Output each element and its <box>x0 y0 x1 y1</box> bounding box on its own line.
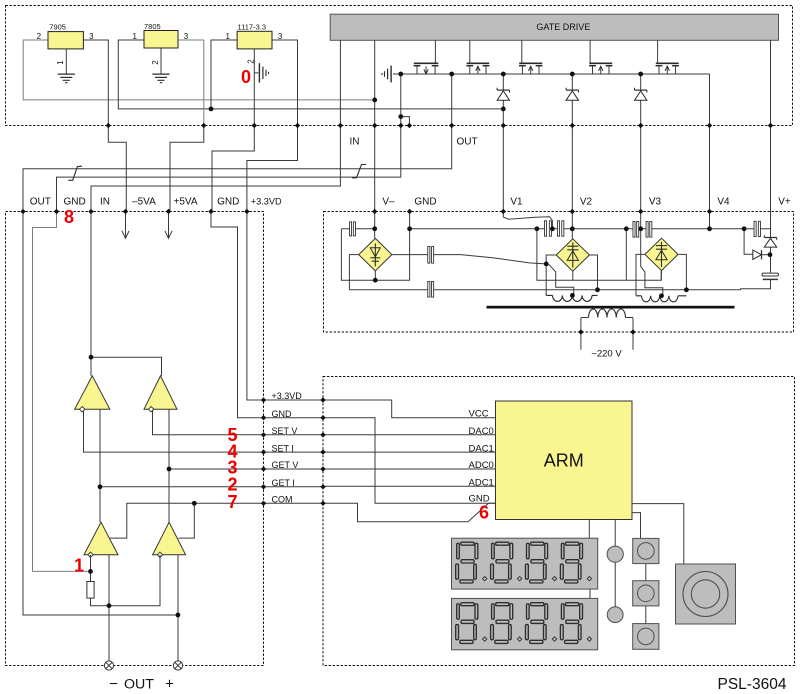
svg-text:+: + <box>165 676 174 693</box>
transistor Q2 <box>469 40 471 63</box>
transistor Q5 <box>657 40 659 63</box>
wire V1 column upper <box>502 74 504 212</box>
wire V4 junction branch down <box>744 229 752 255</box>
node diamonds right box left edge <box>320 397 325 402</box>
wire COM row to GND pin <box>323 503 496 522</box>
svg-text:DAC0: DAC0 <box>469 426 494 437</box>
svg-text:GND: GND <box>63 196 85 207</box>
node diamonds left box top <box>20 209 25 214</box>
svg-text:+3.3VD: +3.3VD <box>251 196 282 206</box>
transformer T1 primary <box>546 294 597 296</box>
node diamonds left box right edge <box>261 397 266 402</box>
wire A4 output to plus terminal <box>177 555 179 661</box>
jumper mark left rails <box>68 166 82 180</box>
diode D4 horizontal <box>753 250 762 259</box>
wire T2 center tap dot <box>659 293 664 298</box>
svg-text:OUT: OUT <box>456 137 477 148</box>
regulator U2 7805 <box>144 31 178 49</box>
wire mosfet source rail <box>393 73 710 75</box>
capacitor C8 on V4 branch <box>754 221 756 236</box>
wire display1 to display2 <box>589 589 591 598</box>
wire bridge bottoms rail <box>537 229 661 280</box>
output terminal minus <box>104 661 113 670</box>
wire VCC row <box>323 400 496 418</box>
wire +3.3VD terminal to +3.3VD row <box>247 212 264 401</box>
wire ARM to button1 <box>632 513 641 539</box>
svg-text:0: 0 <box>241 67 251 87</box>
svg-text:V–: V– <box>382 196 395 207</box>
wire AC rail from GND column <box>410 228 771 230</box>
jumper mark right rails <box>352 165 366 178</box>
wire B2 left vertex loop <box>546 255 556 295</box>
wire GND row to GND pin <box>323 418 496 504</box>
svg-text:1117-3.3: 1117-3.3 <box>238 22 267 31</box>
wire A1 output column to A3 apex <box>99 409 101 522</box>
svg-text:2: 2 <box>37 32 42 41</box>
capacitor C5 <box>557 221 559 236</box>
svg-text:V2: V2 <box>580 196 593 207</box>
wire mains lead left <box>580 318 582 350</box>
ground symbol U2 <box>152 73 169 75</box>
op-amp A2 <box>144 376 177 409</box>
ground symbol U1 <box>58 73 75 75</box>
svg-text:PSL-3604: PSL-3604 <box>718 676 787 693</box>
svg-text:IN: IN <box>350 137 360 148</box>
svg-text:GET I: GET I <box>272 478 295 488</box>
right dashed enclosure (digital board) <box>323 377 795 666</box>
wire T1 center tap dot <box>570 293 575 298</box>
diode D5 on V+ column <box>764 237 776 239</box>
wire ARM to led1 <box>614 520 616 547</box>
wire U1 ground pin <box>65 49 67 74</box>
output terminal plus <box>173 661 182 670</box>
svg-text:GET V: GET V <box>272 460 299 470</box>
wire led1 to led2 <box>614 562 616 607</box>
transistor Q4 <box>589 40 591 63</box>
magnetic core bar <box>487 306 735 309</box>
svg-text:1: 1 <box>133 32 138 41</box>
led L2 <box>607 607 623 623</box>
wire signal rows crossing boxes <box>264 399 324 401</box>
svg-text:GATE DRIVE: GATE DRIVE <box>536 22 590 32</box>
chassis ground symbol gate drive <box>390 66 392 83</box>
wire B1 bottom stub <box>374 271 376 280</box>
svg-text:OUT: OUT <box>30 196 51 207</box>
wire B3 right vertex to rail <box>679 254 687 289</box>
svg-text:V4: V4 <box>717 196 730 207</box>
wire B2 bottom stub <box>572 271 574 280</box>
svg-text:GND: GND <box>414 196 436 207</box>
wire V2 column <box>571 74 573 239</box>
wire -5VA drop from 7905 <box>108 126 126 212</box>
wire V+ column from gate drive <box>770 40 772 237</box>
svg-text:ADC1: ADC1 <box>469 478 494 489</box>
svg-text:7805: 7805 <box>144 22 161 31</box>
svg-text:SET I: SET I <box>272 443 294 453</box>
left dashed enclosure (analog board) <box>6 212 264 666</box>
svg-text:IN: IN <box>100 196 110 207</box>
wire DAC1 row <box>323 451 496 453</box>
svg-text:VCC: VCC <box>469 409 489 420</box>
svg-text:–5VA: –5VA <box>132 196 156 207</box>
capacitor C6 <box>633 222 635 238</box>
wire V3 rail to bottoms rail <box>625 229 627 280</box>
wire V1 wavy joint <box>503 212 552 229</box>
capacitor C4 <box>544 221 546 236</box>
transistor Q3 <box>521 40 523 63</box>
wire D4 to V+ column <box>762 254 771 256</box>
svg-text:2: 2 <box>151 60 160 65</box>
wire gate drive pin to IN rail <box>91 40 340 357</box>
capacitor C1 <box>349 222 351 236</box>
op-amp A3 <box>84 522 118 555</box>
wire ARM to encoder <box>632 504 684 564</box>
bridge rectifier B2 <box>556 239 589 271</box>
wire U2 ground pin <box>160 48 162 74</box>
capacitor C9 electrolytic <box>762 273 779 276</box>
wire A2 output column to A4 apex <box>168 409 170 522</box>
wire SET V row <box>153 409 264 435</box>
wire drop jog to GND column <box>401 117 410 126</box>
button S2 <box>633 581 659 606</box>
wire B1 left vertex loop <box>349 255 358 290</box>
wire IN node to op-amp A1 apex <box>90 357 92 376</box>
svg-text:1: 1 <box>56 60 65 65</box>
display DS1 <box>452 538 598 589</box>
svg-text:3: 3 <box>184 32 189 41</box>
wire button2 to button3 <box>645 606 647 624</box>
button S1 <box>633 538 659 563</box>
wire OUT column and long left OUT line <box>23 74 452 615</box>
wire V4 column <box>709 74 711 229</box>
wire GND terminal down jog <box>33 212 91 572</box>
wire U3 ground pin to node 0 <box>253 49 255 126</box>
display DS2 <box>452 598 598 649</box>
wire ADC0 row <box>323 468 496 470</box>
wire COM row with branches <box>178 503 263 538</box>
transformer T2 primary <box>636 295 686 297</box>
wire button1 to button2 <box>645 564 647 581</box>
wire B3 left vertex loop <box>636 254 644 295</box>
node diamonds middle box bottom <box>578 329 583 334</box>
svg-text:COM: COM <box>272 495 293 505</box>
encoder <box>676 564 736 624</box>
wire A3 input through resistor R1 <box>91 555 161 606</box>
led L1 <box>607 546 623 562</box>
svg-text:V3: V3 <box>649 196 662 207</box>
op-amp A1 <box>75 376 110 409</box>
svg-text:7: 7 <box>228 492 238 512</box>
wire +5VA arrow stub <box>165 212 172 239</box>
wire GND2 terminal to GND row <box>211 212 264 418</box>
button S3 <box>633 624 659 650</box>
wire V+ column mid <box>770 247 772 273</box>
svg-text:8: 8 <box>64 207 74 227</box>
node diamonds middle box top <box>372 209 377 214</box>
transistor Q1 <box>434 40 436 63</box>
regulator U3 1117-3.3 <box>237 31 272 49</box>
wire A3 output to minus terminal <box>108 555 110 661</box>
svg-text:GND: GND <box>272 409 293 419</box>
svg-text:−: − <box>109 676 118 693</box>
wire ADC1 row <box>323 485 496 487</box>
wire B1 right vertex to C2 <box>392 254 428 256</box>
wire 7805 input loop rail <box>118 40 503 109</box>
wire ARM to display1 <box>588 520 590 539</box>
svg-text:V1: V1 <box>510 196 523 207</box>
wire B3 bottom stub <box>660 271 662 281</box>
regulator U1 7905 <box>48 32 83 49</box>
wire 7905 input loop to V- node <box>23 40 375 100</box>
middle dashed enclosure (power conversion) <box>324 212 794 333</box>
bridge rectifier B1 <box>359 238 392 270</box>
wire 7905 output <box>83 40 108 126</box>
svg-text:+3.3VD: +3.3VD <box>272 391 303 401</box>
chassis ground symbol U3 <box>258 63 260 82</box>
svg-text:1: 1 <box>226 32 231 41</box>
capacitor C3 <box>428 282 430 298</box>
svg-text:V+: V+ <box>778 196 791 207</box>
wire C2 wavy to transformer tap <box>434 255 547 264</box>
svg-text:ADC0: ADC0 <box>469 460 494 471</box>
wire B2 right vertex to rail <box>590 255 598 290</box>
wire V+ column bottom jog <box>741 280 771 290</box>
microcontroller ARM <box>496 401 633 520</box>
resistor R1 <box>87 582 94 599</box>
op-amp A4 <box>153 522 186 555</box>
junction dots <box>372 98 377 103</box>
wire C1 return loop <box>341 212 409 281</box>
node diamonds top dashed line <box>106 123 111 128</box>
wire V- column lower with cap branch <box>341 228 374 230</box>
wire 1117 output <box>272 40 298 126</box>
svg-text:6: 6 <box>479 503 489 523</box>
wire V3 column to T2 center tap <box>641 212 663 296</box>
gate drive block <box>330 14 778 40</box>
wire mains lead right <box>632 318 634 350</box>
wire source rail to GND rail drop <box>57 74 401 212</box>
wire GND drop from 1117 ground <box>212 126 254 212</box>
svg-text:OUT: OUT <box>124 677 154 693</box>
wire gate drive pin to V- column <box>374 40 376 238</box>
wire +3.3VD drop from 1117 output <box>247 126 298 212</box>
svg-text:~220 V: ~220 V <box>591 349 622 360</box>
svg-text:1: 1 <box>74 555 84 575</box>
svg-text:GND: GND <box>217 196 239 207</box>
bridge rectifier B3 <box>645 238 678 270</box>
svg-text:DAC1: DAC1 <box>469 444 494 455</box>
wire stub to chassis ground U3 <box>254 72 258 74</box>
svg-text:+5VA: +5VA <box>174 196 198 207</box>
wire main lower rail <box>349 289 740 291</box>
wire DAC0 row <box>323 434 496 436</box>
capacitor C2 <box>428 247 430 264</box>
svg-text:3: 3 <box>89 32 94 41</box>
svg-text:SET V: SET V <box>272 426 298 436</box>
diode D2 on V2 column <box>566 89 578 91</box>
top dashed enclosure (power regulators + gate drive) <box>6 6 793 126</box>
svg-text:ARM: ARM <box>544 451 584 471</box>
capacitor C7 <box>646 222 648 238</box>
wire V3 column upper <box>640 74 642 212</box>
wire GET I row <box>100 486 264 488</box>
svg-text:7905: 7905 <box>49 22 66 31</box>
wire GET V row <box>169 468 264 470</box>
wire -5VA arrow stub <box>122 212 129 239</box>
wire SET I row <box>84 409 264 452</box>
wire 1117 input <box>211 40 237 109</box>
diode D3 on V3 column <box>635 89 647 91</box>
wire 7805 output <box>178 40 204 126</box>
diode D1 on V1 column <box>497 89 509 91</box>
wire +5VA drop from 7805 <box>170 126 204 212</box>
transformer secondary coil <box>589 309 626 318</box>
wire IN node branch to op-amp A2 <box>91 357 162 376</box>
svg-text:3: 3 <box>278 32 283 41</box>
